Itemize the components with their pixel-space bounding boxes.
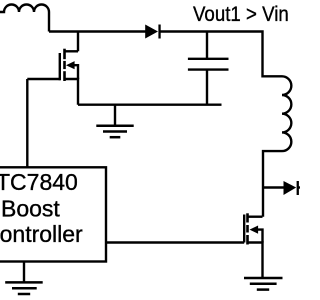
- svg-text:Vout1 > Vin: Vout1 > Vin: [193, 3, 289, 26]
- svg-text:Boost: Boost: [1, 195, 60, 221]
- svg-text:Controller: Controller: [0, 221, 83, 247]
- svg-text:TC7840: TC7840: [0, 169, 78, 195]
